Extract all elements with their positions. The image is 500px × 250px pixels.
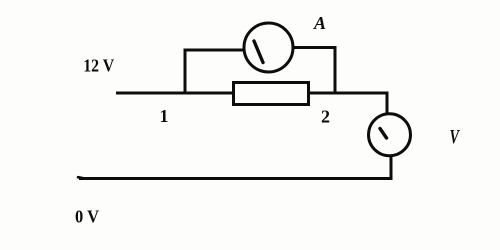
svg-text:A: A [313, 13, 326, 33]
svg-text:2: 2 [321, 107, 330, 127]
svg-text:V: V [450, 126, 461, 148]
svg-text:0 V: 0 V [75, 207, 99, 227]
svg-text:1: 1 [160, 106, 169, 126]
svg-text:12 V: 12 V [83, 56, 114, 76]
